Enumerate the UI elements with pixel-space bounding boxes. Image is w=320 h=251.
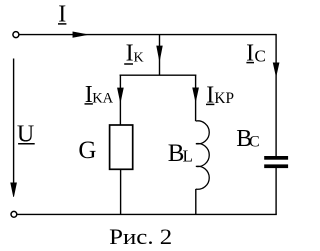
- svg-text:C: C: [255, 47, 266, 66]
- svg-text:K: K: [134, 51, 144, 66]
- svg-text:I: I: [126, 40, 134, 66]
- svg-text:KA: KA: [92, 90, 113, 106]
- svg-text:G: G: [78, 137, 96, 164]
- svg-text:C: C: [249, 134, 260, 151]
- svg-text:KP: KP: [214, 90, 234, 107]
- svg-text:L: L: [183, 147, 193, 166]
- svg-text:Рис. 2: Рис. 2: [109, 224, 172, 249]
